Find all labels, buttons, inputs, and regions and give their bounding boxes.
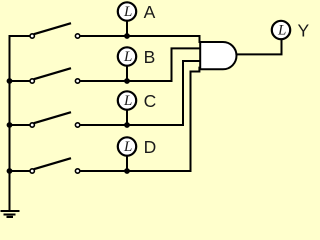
node junction rail/row4 [7, 168, 13, 174]
svg-text:L: L [123, 4, 132, 20]
lamp B [118, 47, 136, 65]
svg-text:L: L [123, 93, 132, 109]
wire lamp A stub [126, 20, 128, 36]
svg-text:L: L [277, 23, 286, 39]
svg-text:L: L [123, 49, 132, 65]
AND gate U1 [200, 42, 236, 69]
node junction row1/lamp A [124, 33, 130, 39]
lamp C [118, 91, 136, 109]
wire row 4 to AND gate input 4 [80, 68, 200, 171]
wire row 4 (rail to switch SD) [10, 170, 30, 172]
wire row 3 to AND gate input 3 [80, 61, 200, 125]
wire row 3 (rail to switch SC) [10, 124, 30, 126]
lamp A [118, 2, 136, 20]
node junction row4/lamp D [124, 168, 130, 174]
switch SA [30, 23, 80, 38]
node junction rail/row3 [7, 122, 13, 128]
wire lamp C stub [126, 110, 128, 126]
svg-text:A: A [144, 2, 156, 22]
svg-text:D: D [144, 137, 157, 157]
wire left vertical rail [9, 35, 11, 211]
wire row 1 to AND gate input 1 [80, 36, 199, 43]
node junction row3/lamp C [124, 122, 130, 128]
lamp D [118, 137, 136, 155]
svg-text:B: B [144, 47, 156, 67]
wire row 2 (rail to switch SB) [10, 80, 30, 82]
switch SB [30, 68, 80, 83]
svg-text:Y: Y [298, 20, 310, 40]
switch SD [30, 158, 80, 173]
lamp Y [272, 21, 290, 39]
switch SC [30, 112, 80, 127]
wire lamp D stub [126, 155, 128, 171]
node junction rail/row2 [7, 78, 13, 84]
wire AND output to lamp Y [237, 39, 282, 54]
svg-text:C: C [144, 91, 157, 111]
wire lamp B stub [126, 65, 128, 81]
wire row 2 to AND gate input 2 [80, 48, 200, 81]
node junction row2/lamp B [124, 78, 130, 84]
svg-text:L: L [123, 139, 132, 155]
wire row 1 (rail to switch SA) [10, 35, 30, 37]
ground [1, 211, 20, 217]
